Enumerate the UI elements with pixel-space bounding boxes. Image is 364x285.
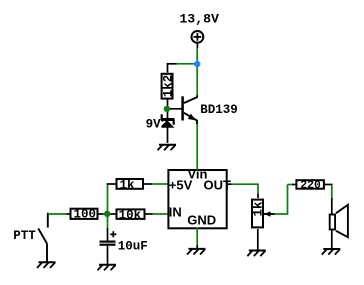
- ground (below capacitor): [98, 265, 117, 271]
- svg-text:+5V: +5V: [169, 177, 193, 192]
- svg-text:1k: 1k: [252, 201, 266, 217]
- junction node (blue): [194, 61, 200, 67]
- wire OUT pin to potentiometer: [228, 183, 259, 198]
- wire 220 to speaker: [325, 185, 333, 214]
- speaker LS1: [330, 205, 348, 249]
- wire 1k2 to base node: [167, 100, 169, 110]
- wire junction down to capacitor: [107, 214, 109, 241]
- resistor 1k: [117, 178, 144, 192]
- svg-text:PTT: PTT: [13, 229, 36, 243]
- svg-text:13,8V: 13,8V: [179, 11, 219, 26]
- wire switch to 100: [48, 213, 67, 215]
- wire junction to collector: [196, 64, 198, 96]
- svg-text:BD139: BD139: [200, 103, 238, 117]
- svg-text:100: 100: [74, 208, 97, 222]
- svg-text:OUT: OUT: [204, 177, 232, 192]
- ground (below speaker): [322, 249, 341, 255]
- wire net from junction up to 1k resistor row: [107, 184, 109, 215]
- wire wiper to 220: [275, 185, 296, 215]
- svg-text:GND: GND: [187, 212, 216, 227]
- ground (below zener): [158, 145, 177, 151]
- regulator module U1: [168, 166, 231, 228]
- power supply terminal 13,8V: [192, 31, 204, 48]
- wire 10k to IN pin: [153, 213, 168, 215]
- svg-text:220: 220: [300, 180, 321, 192]
- junction node (green) input: [104, 211, 110, 217]
- resistor 1k2: [162, 74, 176, 99]
- transistor BD139 (NPN): [183, 95, 197, 124]
- resistor 100: [66, 208, 103, 222]
- svg-text:10k: 10k: [119, 208, 142, 222]
- svg-text:1k: 1k: [120, 178, 136, 192]
- wire 100 to junction: [104, 213, 108, 215]
- wire 1k to +5V pin: [144, 183, 168, 185]
- ground (below switch): [37, 262, 56, 268]
- resistor 220: [296, 180, 324, 192]
- svg-text:IN: IN: [169, 204, 182, 219]
- switch PTT: [38, 213, 48, 262]
- ground (below module): [187, 249, 206, 255]
- potentiometer 1k: [252, 200, 275, 250]
- junction node (green) at base: [164, 106, 170, 112]
- ground (below potentiometer): [247, 251, 265, 257]
- wire corner to 1k left pin: [107, 183, 116, 185]
- capacitor 10uF (polarized): [100, 231, 117, 264]
- wire supply to junction: [196, 48, 198, 64]
- svg-text:9V2: 9V2: [146, 118, 169, 132]
- wire GND pin to ground: [196, 228, 198, 249]
- svg-text:1k2: 1k2: [162, 75, 176, 98]
- wire Vin pin into module: [196, 168, 198, 170]
- svg-text:10uF: 10uF: [118, 240, 148, 254]
- resistor 10k: [110, 208, 153, 222]
- wire base node to transistor base: [168, 108, 182, 110]
- zener diode 9V2: [161, 109, 175, 143]
- wire emitter to Vin pin: [196, 124, 198, 169]
- wire junction to 1k2 corner: [167, 63, 198, 73]
